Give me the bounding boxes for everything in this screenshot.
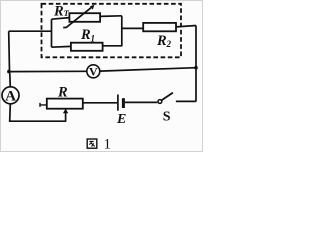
wire R1 left [52,45,71,48]
resistor R2 box [143,23,176,31]
battery E short plate [122,98,125,108]
svg-text:V: V [89,64,98,78]
wire join to R2 [122,27,143,29]
right join bar of parallel branches [121,16,123,47]
resistor R1 box [71,43,103,51]
wire R2 to right corner [176,26,196,27]
node junction left [7,70,11,74]
svg-text:2: 2 [166,39,172,49]
ammeter A circle [2,87,19,104]
dashed sensor box [42,4,182,58]
rheostat RT arrowhead [90,5,95,10]
caption 图 1 (hand drawn CJK) [87,139,97,148]
wire right vertical [195,26,197,102]
wire voltmeter left [9,70,87,72]
wire left vertical upper [8,31,11,71]
switch S pivot circle [158,100,162,104]
wire RT right [100,15,122,18]
wire bottom slider horizontal [9,120,66,122]
rheostat R left stub [40,103,47,107]
rheostat R box [47,99,83,109]
svg-text:R: R [57,84,68,100]
wire left vertical to ammeter [9,72,12,87]
svg-text:A: A [5,88,16,104]
wire battery to switch [125,101,157,103]
wire slider vertical stem [65,112,67,122]
left join bar of parallel branches [51,19,53,47]
svg-text:E: E [116,112,126,127]
wire voltmeter right [100,68,196,71]
node junction right [194,66,198,70]
wire to rheostat RT left [52,18,70,20]
wire R right to battery [83,102,117,104]
svg-text:R: R [53,4,64,20]
svg-text:T: T [64,8,70,18]
faint scan frame [1,1,203,152]
svg-text:1: 1 [91,33,96,43]
battery E long plate [117,95,119,111]
svg-text:1: 1 [104,136,112,152]
svg-text:R: R [156,33,167,49]
rheostat RT arrow diagonal [63,7,92,28]
wire ammeter to bottom corner [9,104,12,121]
wire switch right [176,100,196,102]
svg-text:R: R [80,27,91,43]
wire left-top horizontal into box [9,30,52,32]
slider arrowhead [63,109,68,114]
rheostat RT box [69,13,100,22]
svg-text:S: S [163,110,171,125]
voltmeter V circle [87,65,100,78]
switch S lever [162,93,173,101]
wire R1 right [103,45,122,47]
